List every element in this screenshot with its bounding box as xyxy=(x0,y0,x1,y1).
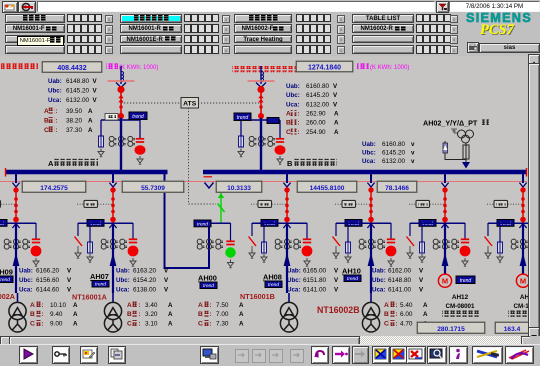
feeder bay AH11 : bus stub and truck chevrons xyxy=(444,172,446,183)
svg-text:B: B xyxy=(198,311,203,318)
feeder bay AH07 : capacitor branch xyxy=(132,223,134,239)
incoming feeder A : closed indicator lamp xyxy=(135,145,146,154)
svg-text:Uab:: Uab: xyxy=(286,83,300,90)
feeder bay AH11 : outgoing main wire xyxy=(444,223,446,274)
incoming feeder B : junction bar xyxy=(241,119,280,121)
voltage block AH09 xyxy=(19,268,72,275)
toolbar: undo button xyxy=(311,346,329,364)
busbar B end marks xyxy=(204,176,213,178)
toolbar: cancel button xyxy=(406,346,426,364)
svg-text:9.40: 9.40 xyxy=(50,311,63,318)
incoming feeder B : PT fuse branch xyxy=(240,120,242,136)
svg-text:10.10: 10.10 xyxy=(50,302,66,309)
feeder bay AH08 : remote box xyxy=(251,203,286,205)
toolbar: key button xyxy=(52,346,70,364)
feeder bay AH10 : closed indicator lamp xyxy=(386,246,397,257)
voltage block AH10 xyxy=(372,268,424,275)
feeder bay AH08 : PT fuse xyxy=(263,223,265,242)
svg-text:M: M xyxy=(442,277,448,286)
PT AH02 : secondary fuse xyxy=(463,145,469,159)
feeder bay AH09 : trend button xyxy=(0,220,7,227)
svg-text:C: C xyxy=(44,127,49,134)
feeder bay AH09 : closed indicator lamp xyxy=(31,246,42,257)
field: 280.1715 xyxy=(417,322,485,334)
toolbar: tag button xyxy=(80,346,98,364)
transformer NT16002B xyxy=(362,293,379,332)
svg-text:3.20: 3.20 xyxy=(145,311,158,318)
svg-text:C: C xyxy=(30,320,35,327)
incoming feeder B : junction node xyxy=(258,113,264,119)
svg-text:C: C xyxy=(286,129,291,136)
svg-text:B: B xyxy=(286,120,291,127)
svg-text:v: v xyxy=(411,158,415,165)
svg-text:A: A xyxy=(286,111,291,118)
svg-text:A: A xyxy=(88,127,93,134)
svg-text:6151.80: 6151.80 xyxy=(303,277,327,284)
motor AH11 trend button xyxy=(456,276,475,284)
svg-text::: : xyxy=(395,311,397,318)
current block A incoming xyxy=(44,108,57,115)
svg-text:A: A xyxy=(30,302,35,309)
svg-text:A: A xyxy=(423,302,428,309)
toolbar: find button xyxy=(427,346,447,364)
svg-text:6148.80: 6148.80 xyxy=(66,78,90,85)
feeder bay AH07 : remote box xyxy=(77,203,112,205)
svg-text:CM-08001: CM-08001 xyxy=(446,303,475,310)
incoming feeder B : capacitor branch xyxy=(279,120,281,138)
feeder bay AH07 : earthing switch xyxy=(77,223,79,236)
field: 174.2575 xyxy=(22,181,86,193)
feeder bay AH10 : breaker wire (energized) xyxy=(370,187,372,223)
label: kKWh unit B (magenta) xyxy=(357,63,409,71)
feeder bay AH10 : trend button xyxy=(345,220,362,227)
svg-text:AH02_Y/Y/Δ_PT: AH02_Y/Y/Δ_PT xyxy=(423,119,478,128)
feeder bay AH11 : breaker wire (energized) xyxy=(444,187,446,223)
svg-text:6145.20: 6145.20 xyxy=(66,87,90,94)
toolbar: info button xyxy=(449,346,468,364)
svg-text::: : xyxy=(41,311,43,318)
svg-text:6148.80: 6148.80 xyxy=(388,277,412,284)
svg-text:Ubc:: Ubc: xyxy=(372,277,386,284)
feeder bay AH09 : bus stub and truck chevrons xyxy=(15,172,17,183)
svg-text:Uab:: Uab: xyxy=(48,78,62,85)
label: bay AH10 xyxy=(342,267,361,283)
svg-text:Ubc:: Ubc: xyxy=(19,277,33,284)
feeder bay AH07 : junction bar xyxy=(78,222,133,224)
svg-text:1274.1840: 1274.1840 xyxy=(308,65,341,72)
incoming feeder B : closed breaker xyxy=(257,86,264,93)
nav button grid xyxy=(0,0,540,1)
incoming feeder A : junction node xyxy=(118,113,124,119)
feeder bay AH10 : earthing switch xyxy=(335,223,337,236)
ATS box xyxy=(181,98,199,109)
feeder bay AH08 : CTs xyxy=(275,239,301,249)
feeder bay AH08 : junction bar xyxy=(252,222,307,224)
svg-text:14455.8100: 14455.8100 xyxy=(310,185,345,192)
svg-text:AH08: AH08 xyxy=(263,273,282,282)
bus tie AH00 : open switch (green) xyxy=(220,193,222,224)
svg-text::: : xyxy=(395,302,397,309)
svg-text::: : xyxy=(138,320,140,327)
busbar A left end mark xyxy=(5,168,7,177)
feeder bay AH07 : breaker wire (energized) xyxy=(112,187,114,223)
svg-text:A: A xyxy=(239,311,244,318)
incoming A : trend button xyxy=(129,112,147,120)
svg-text:A: A xyxy=(198,302,203,309)
PCS7 logo xyxy=(480,22,540,37)
PT AH02 : left fuse leg xyxy=(445,141,466,160)
svg-text:v: v xyxy=(411,141,415,148)
svg-text:Uca:: Uca: xyxy=(372,286,385,293)
transformer NT16002A xyxy=(9,293,26,332)
feeder bay AH10 : capacitor branch xyxy=(390,223,392,239)
feeder bay AH09 : junction bar xyxy=(0,222,36,224)
incoming feeder A : boundary line xyxy=(108,80,135,82)
svg-text:9.00: 9.00 xyxy=(50,320,63,327)
svg-text:ATS: ATS xyxy=(183,101,197,108)
label: active energy (CJK) xyxy=(1,63,38,69)
svg-text:6.00: 6.00 xyxy=(400,311,413,318)
top toolbar: alarm button xyxy=(2,1,18,13)
feeder bay AH08 : closed indicator lamp xyxy=(302,246,313,257)
bus tie AH00 : open indicator lamp (green) xyxy=(225,247,235,257)
svg-text::: : xyxy=(209,320,211,327)
incoming feeder B : boundary line xyxy=(248,80,275,82)
field: 78.1466 xyxy=(377,181,417,193)
feeder bay AH13 : earthing switch xyxy=(487,223,489,236)
svg-text:Uca:: Uca: xyxy=(362,158,375,165)
svg-text:(K KWh: 1000): (K KWh: 1000) xyxy=(370,65,409,71)
svg-text:C: C xyxy=(198,320,203,327)
PT AH02 : winding circles xyxy=(458,130,474,143)
toolbar: disabled button xyxy=(252,349,266,363)
field: energy B 1274.1840 xyxy=(296,61,353,72)
busbar section B xyxy=(203,170,527,175)
incoming A : remote box xyxy=(105,114,118,121)
svg-text:6162.00: 6162.00 xyxy=(388,268,412,275)
svg-text:6165.00: 6165.00 xyxy=(303,268,327,275)
svg-text:A: A xyxy=(168,302,173,309)
toolbar: run button xyxy=(19,346,38,364)
svg-text:AH12: AH12 xyxy=(452,294,469,301)
label: bay AH08 xyxy=(263,273,282,289)
label: kKWh unit A (magenta) xyxy=(106,63,158,71)
PT AH02 : drop arrow to bus xyxy=(465,160,467,163)
incoming feeder B : HV riser wire xyxy=(260,89,262,116)
svg-text::: : xyxy=(297,129,299,136)
feeder bay AH11 : CTs xyxy=(433,239,459,249)
top toolbar: message line xyxy=(37,1,435,12)
label: AH14 cabinet (clipped) xyxy=(508,294,540,317)
svg-text:A: A xyxy=(127,302,132,309)
bus tie AH00 : junction bar xyxy=(209,222,231,224)
feeder bay AH11 : junction bar xyxy=(410,222,465,224)
svg-text::: : xyxy=(209,311,211,318)
feeder bay AH13 : closed indicator lamp xyxy=(538,246,540,257)
svg-text::: : xyxy=(55,117,57,124)
feeder bay AH10 : remote box xyxy=(335,203,370,205)
svg-text:B: B xyxy=(44,117,49,124)
svg-text:38.20: 38.20 xyxy=(66,117,82,124)
svg-text:B: B xyxy=(384,311,389,318)
toolbar: step button xyxy=(332,346,350,364)
feeder bay AH07 : CTs xyxy=(101,239,127,249)
feeder bay AH13 : junction bar xyxy=(488,222,540,224)
feeder bay AH13 : remote box xyxy=(487,203,522,205)
bus tie AH00 : capacitor branch xyxy=(230,223,232,241)
svg-text:trend: trend xyxy=(460,278,472,284)
svg-text:408.4432: 408.4432 xyxy=(57,65,86,72)
label: B section incoming breaker xyxy=(287,159,337,168)
tooltip NM16001-F xyxy=(17,36,64,46)
svg-text::: : xyxy=(395,320,397,327)
svg-text:NT16002B: NT16002B xyxy=(317,305,360,315)
feeder bay AH11 : capacitor branch xyxy=(464,223,466,239)
svg-text::: : xyxy=(55,127,57,134)
svg-text:(K KWh: 1000): (K KWh: 1000) xyxy=(119,65,158,71)
svg-text:NT16001B: NT16001B xyxy=(240,292,275,301)
svg-text:10.3133: 10.3133 xyxy=(227,185,251,192)
svg-text::: : xyxy=(297,120,299,127)
svg-text:55.7309: 55.7309 xyxy=(141,185,165,192)
svg-text:5.40: 5.40 xyxy=(400,302,413,309)
svg-text:B: B xyxy=(30,311,35,318)
feeder bay AH13 : flow arrow xyxy=(520,253,527,267)
svg-text:39.50: 39.50 xyxy=(66,108,82,115)
svg-text:A: A xyxy=(384,302,389,309)
feeder bay AH11 : flow arrow xyxy=(442,253,449,267)
measurement rail (red) xyxy=(0,181,527,183)
svg-text::: : xyxy=(41,302,43,309)
incoming feeder A : junction bar xyxy=(101,119,140,121)
current block T4 xyxy=(384,302,397,309)
svg-text:CM-14001: CM-14001 xyxy=(514,303,528,310)
svg-text:6154.20: 6154.20 xyxy=(133,277,157,284)
svg-text:Uca:: Uca: xyxy=(116,286,129,293)
incoming feeder B : closed indicator lamp xyxy=(275,145,286,154)
top toolbar: clock field xyxy=(449,1,540,12)
svg-text:6144.60: 6144.60 xyxy=(36,286,60,293)
svg-text:trend: trend xyxy=(95,282,106,288)
incoming B : trend mini button xyxy=(267,118,279,124)
feeder bay AH09 : CTs xyxy=(4,239,30,249)
svg-text:Ubc:: Ubc: xyxy=(48,87,62,94)
svg-text:260.00: 260.00 xyxy=(306,120,326,127)
svg-text:Ubc:: Ubc: xyxy=(362,150,376,157)
svg-text:262.90: 262.90 xyxy=(306,111,326,118)
toolbar: sign wide button xyxy=(505,346,534,364)
sias button xyxy=(479,43,540,53)
feeder bay AH10 : junction bar xyxy=(336,222,391,224)
vertical scrollbar xyxy=(528,54,540,336)
svg-text:C: C xyxy=(384,320,389,327)
svg-text:4.70: 4.70 xyxy=(400,320,413,327)
feeder bay AH11 : earthing switch xyxy=(409,223,411,236)
svg-text:Ubc:: Ubc: xyxy=(286,92,300,99)
svg-text:Uca:: Uca: xyxy=(19,286,32,293)
feeder bay AH13 : trend button xyxy=(497,220,514,227)
bottom toolbar xyxy=(0,344,540,366)
SIEMENS logo xyxy=(466,11,540,23)
feeder bay AH08 : breaker wire (energized) xyxy=(286,187,288,223)
svg-text:trend: trend xyxy=(132,114,144,120)
toolbar: disabled button xyxy=(290,349,304,363)
feeder bay AH08 : flow arrow xyxy=(284,253,291,267)
svg-text:A: A xyxy=(88,117,93,124)
svg-text:6166.20: 6166.20 xyxy=(36,268,60,275)
incoming B : trend button xyxy=(234,113,251,121)
svg-text:Uab:: Uab: xyxy=(372,268,386,275)
svg-text:280.1715: 280.1715 xyxy=(437,326,465,333)
svg-text:A: A xyxy=(334,120,339,127)
svg-text:A: A xyxy=(73,320,78,327)
feeder bay AH10 : flow arrow xyxy=(368,253,375,267)
feeder bay AH13 : PT fuse xyxy=(499,223,501,242)
toolbar: copy button xyxy=(108,346,126,364)
label: AH12 cabinet xyxy=(442,294,479,317)
field: 55.7309 xyxy=(122,181,184,193)
label: bay AH07 xyxy=(90,272,109,288)
svg-text:B: B xyxy=(287,159,293,168)
current block T2 xyxy=(127,302,140,309)
svg-text::: : xyxy=(55,108,57,115)
bus tie AH00 : trend button xyxy=(194,220,211,227)
feeder bay AH11 : remote box xyxy=(409,203,444,205)
incoming feeder A : PT fuse branch xyxy=(100,120,102,136)
feeder bay AH08 : trend button xyxy=(261,220,278,227)
feeder bay AH13 : breaker wire (energized) xyxy=(522,187,524,223)
incoming feeder B : supply coil xyxy=(260,66,262,84)
transformer NT16001A xyxy=(104,293,121,332)
feeder bay AH08 : bus stub and truck chevrons xyxy=(286,172,288,183)
current block B incoming xyxy=(286,110,299,117)
svg-text:A: A xyxy=(423,311,428,318)
svg-text:Uab:: Uab: xyxy=(362,141,376,148)
feeder bay AH11 : PT fuse xyxy=(421,223,423,242)
svg-text:AH14: AH14 xyxy=(520,294,528,301)
svg-text:163.4: 163.4 xyxy=(504,326,521,333)
svg-text:A: A xyxy=(73,302,78,309)
svg-text:trend: trend xyxy=(203,283,214,289)
voltage block AH07 xyxy=(116,268,169,275)
field: 14455.8100 xyxy=(297,181,357,193)
toolbar: network button xyxy=(200,346,219,364)
svg-text:AH09: AH09 xyxy=(0,268,13,277)
feeder bay AH10 : CTs xyxy=(359,239,385,249)
svg-text:Uab:: Uab: xyxy=(116,268,130,275)
toolbar: disabled step button xyxy=(352,346,369,364)
svg-text:3.40: 3.40 xyxy=(145,302,158,309)
feeder bay AH13 : bus stub and truck chevrons xyxy=(522,172,524,183)
svg-text:Uab:: Uab: xyxy=(19,268,33,275)
svg-text:254.90: 254.90 xyxy=(306,129,326,136)
label: AH02_Y/Y/D_PT cabinet xyxy=(423,119,489,128)
svg-text:AH10: AH10 xyxy=(342,267,361,276)
feeder bay AH07 : bus stub and truck chevrons xyxy=(112,172,114,183)
field: 163.4 xyxy=(495,322,529,334)
svg-text:6141.00: 6141.00 xyxy=(388,286,412,293)
svg-text:3.10: 3.10 xyxy=(145,320,158,327)
toolbar: chart delete button xyxy=(390,346,408,364)
svg-text::: : xyxy=(41,320,43,327)
svg-text:6145.20: 6145.20 xyxy=(382,150,406,157)
svg-text:6132.00: 6132.00 xyxy=(382,158,406,165)
svg-text:6141.00: 6141.00 xyxy=(303,286,327,293)
feeder bay AH09 : outgoing main wire xyxy=(15,223,17,293)
horizontal scrollbar xyxy=(0,336,530,344)
svg-text:7.30: 7.30 xyxy=(216,320,229,327)
feeder bay AH07 : trend button xyxy=(87,220,104,227)
toolbar: chart edit button xyxy=(372,346,390,364)
svg-text:trend: trend xyxy=(197,221,208,227)
svg-text:C: C xyxy=(127,320,132,327)
bus tie AH00 : bus stub chevron xyxy=(205,183,214,189)
feeder bay AH09 : capacitor branch xyxy=(35,223,37,239)
busbar section A xyxy=(5,170,168,175)
incoming feeder A : closed breaker xyxy=(117,86,124,93)
bus tie AH00 : CTs xyxy=(197,239,223,249)
svg-text:6156.60: 6156.60 xyxy=(36,277,60,284)
field: energy A 408.4432 xyxy=(42,62,102,73)
bus tie AH00 : tie wire to bus A xyxy=(165,174,210,268)
voltage block PT mid xyxy=(362,141,415,148)
top toolbar: horn button xyxy=(18,1,36,13)
label: A section incoming breaker xyxy=(48,159,98,168)
svg-text::: : xyxy=(297,111,299,118)
svg-text:Ubc:: Ubc: xyxy=(287,277,301,284)
motor AH11 xyxy=(438,274,451,287)
voltage block B incoming xyxy=(286,83,338,90)
field: 10.3133 xyxy=(216,181,262,193)
feeder bay AH09 : breaker wire (energized) xyxy=(15,187,17,223)
feeder bay AH10 : bus stub and truck chevrons xyxy=(370,172,372,183)
feeder bay AH07 : closed indicator lamp xyxy=(128,246,139,257)
svg-text:trend: trend xyxy=(347,276,358,282)
feeder bay AH08 : earthing switch xyxy=(251,223,253,236)
svg-text:Uca:: Uca: xyxy=(48,97,61,104)
svg-text:Uca:: Uca: xyxy=(287,286,300,293)
svg-text:A: A xyxy=(44,108,49,115)
feeder bay AH10 : PT fuse xyxy=(347,223,349,242)
incoming feeder A : main wire to bus xyxy=(120,118,122,170)
svg-text:6160.80: 6160.80 xyxy=(382,141,406,148)
svg-text:6145.20: 6145.20 xyxy=(306,92,330,99)
feeder bay AH10 : outgoing main wire xyxy=(370,223,372,293)
feeder bay AH09 : remote box xyxy=(0,203,15,205)
svg-text:v: v xyxy=(411,150,415,157)
current block T3 xyxy=(198,302,211,309)
svg-text:AH07: AH07 xyxy=(90,272,109,281)
incoming feeder A : CTs xyxy=(109,136,135,146)
current block T1 xyxy=(30,302,43,309)
svg-text:37.30: 37.30 xyxy=(66,127,82,134)
svg-text:6132.00: 6132.00 xyxy=(306,101,330,108)
feeder bay AH11 : trend button xyxy=(419,220,436,227)
feeder bay AH08 : capacitor branch xyxy=(306,223,308,239)
svg-text:trend: trend xyxy=(237,115,249,121)
feeder bay AH13 : CTs xyxy=(511,239,537,249)
incoming feeder A : HV riser wire xyxy=(120,89,122,116)
feeder bay AH07 : flow arrow xyxy=(110,253,117,267)
svg-text:trend: trend xyxy=(268,282,279,288)
top toolbar: filter button xyxy=(436,1,449,13)
incoming feeder A : supply coil xyxy=(120,66,122,84)
svg-text:Uca:: Uca: xyxy=(286,101,299,108)
svg-text::: : xyxy=(138,302,140,309)
incoming feeder A : capacitor branch xyxy=(139,120,141,138)
ATS dashed link xyxy=(121,102,261,104)
voltage block AH08 xyxy=(287,268,339,275)
